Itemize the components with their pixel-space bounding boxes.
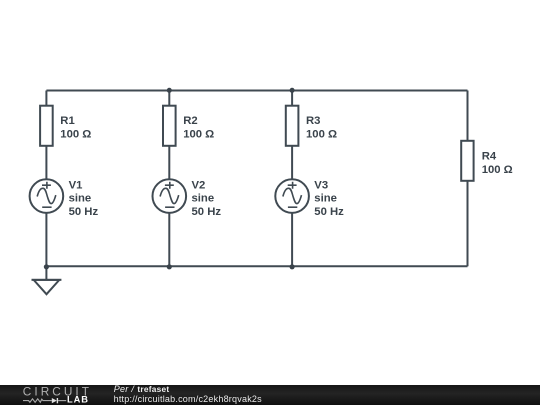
svg-text:50 Hz: 50 Hz bbox=[314, 206, 344, 218]
svg-text:100 Ω: 100 Ω bbox=[482, 164, 513, 176]
svg-text:R4: R4 bbox=[482, 150, 497, 162]
svg-text:100 Ω: 100 Ω bbox=[60, 128, 91, 140]
svg-text:100 Ω: 100 Ω bbox=[183, 128, 214, 140]
svg-text:sine: sine bbox=[314, 193, 337, 205]
svg-text:R2: R2 bbox=[183, 115, 197, 127]
svg-text:R1: R1 bbox=[60, 115, 74, 127]
svg-text:100 Ω: 100 Ω bbox=[306, 128, 337, 140]
svg-text:trefaset: trefaset bbox=[137, 385, 169, 394]
svg-text:V1: V1 bbox=[69, 179, 83, 191]
svg-text:Per /: Per / bbox=[114, 385, 136, 394]
svg-text:sine: sine bbox=[192, 193, 215, 205]
svg-text:http://circuitlab.com/c2ekh8rq: http://circuitlab.com/c2ekh8rqvak2s bbox=[114, 393, 263, 403]
svg-text:sine: sine bbox=[69, 193, 92, 205]
svg-text:V2: V2 bbox=[192, 179, 206, 191]
svg-text:R3: R3 bbox=[306, 115, 320, 127]
svg-text:V3: V3 bbox=[314, 179, 328, 191]
svg-text:50 Hz: 50 Hz bbox=[192, 206, 222, 218]
svg-text:50 Hz: 50 Hz bbox=[69, 206, 99, 218]
